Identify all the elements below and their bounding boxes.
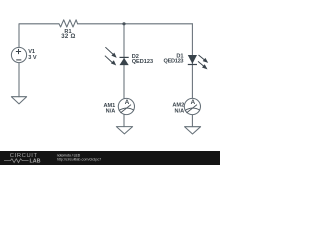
svg-text:N/A: N/A xyxy=(106,108,116,114)
svg-text:http://circuitlab.com/ck3pc7: http://circuitlab.com/ck3pc7 xyxy=(57,157,101,161)
svg-text:N/A: N/A xyxy=(175,108,185,114)
svg-text:A: A xyxy=(191,99,196,106)
svg-text:LAB: LAB xyxy=(30,159,41,165)
svg-text:3 V: 3 V xyxy=(28,55,37,61)
svg-text:A: A xyxy=(125,99,130,106)
svg-text:QED123: QED123 xyxy=(164,59,184,65)
svg-text:QED123: QED123 xyxy=(132,59,153,65)
svg-text:32 Ω: 32 Ω xyxy=(61,34,75,40)
